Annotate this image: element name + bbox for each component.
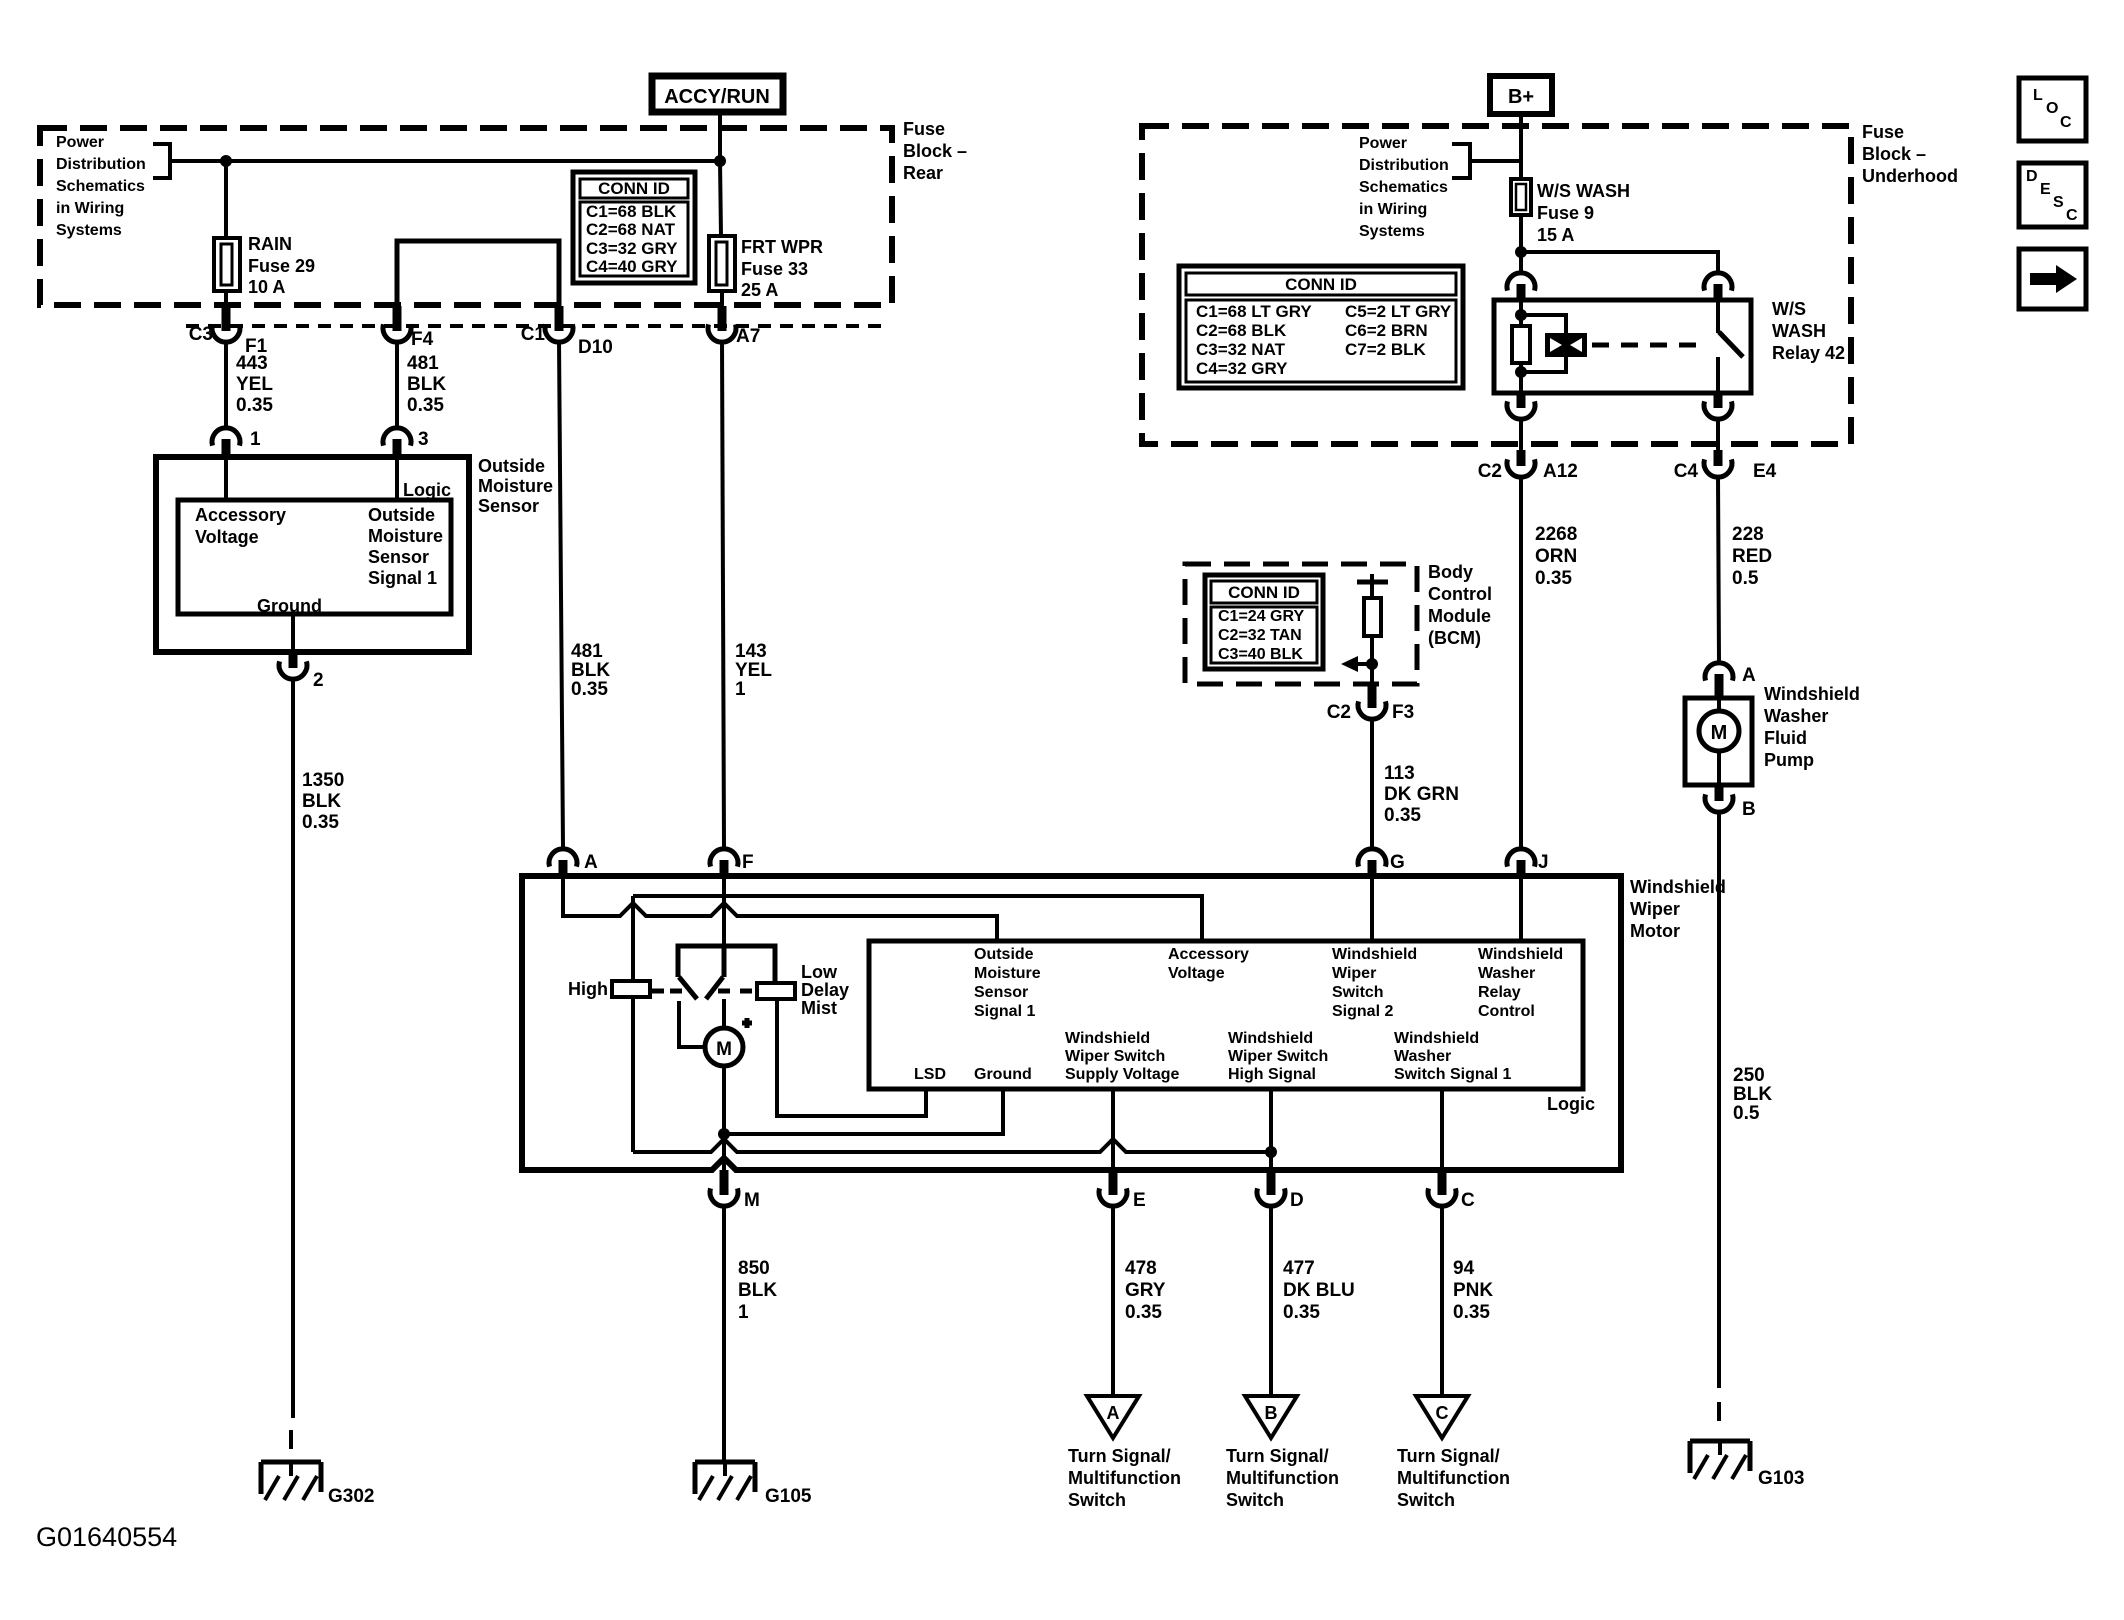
- svg-text:C1=68 BLK: C1=68 BLK: [586, 202, 677, 221]
- svg-text:YEL: YEL: [236, 374, 273, 395]
- svg-text:Block –: Block –: [1862, 144, 1926, 164]
- svg-text:DK BLU: DK BLU: [1283, 1280, 1355, 1301]
- svg-text:Systems: Systems: [56, 222, 122, 239]
- svg-text:C1: C1: [521, 324, 546, 345]
- svg-text:Windshield: Windshield: [1630, 877, 1726, 897]
- svg-text:Power: Power: [56, 134, 104, 151]
- svg-text:Moisture: Moisture: [478, 476, 553, 496]
- svg-text:228: 228: [1732, 524, 1764, 545]
- svg-text:B: B: [1742, 799, 1756, 820]
- svg-text:850: 850: [738, 1258, 770, 1279]
- svg-text:C3: C3: [189, 324, 213, 345]
- svg-text:Wiper Switch: Wiper Switch: [1065, 1048, 1165, 1065]
- svg-text:Fuse: Fuse: [903, 119, 945, 139]
- svg-text:3: 3: [418, 429, 429, 450]
- svg-text:Windshield: Windshield: [1764, 684, 1860, 704]
- svg-text:High Signal: High Signal: [1228, 1066, 1316, 1083]
- svg-text:DK GRN: DK GRN: [1384, 784, 1459, 805]
- svg-text:Signal 2: Signal 2: [1332, 1003, 1393, 1020]
- svg-text:Fuse: Fuse: [1862, 122, 1904, 142]
- svg-text:Low: Low: [801, 962, 838, 982]
- svg-text:C2: C2: [1478, 461, 1502, 482]
- svg-text:O: O: [2046, 100, 2058, 117]
- svg-text:C: C: [2060, 114, 2072, 131]
- svg-text:Body: Body: [1428, 562, 1473, 582]
- svg-text:0.5: 0.5: [1733, 1103, 1760, 1124]
- svg-text:Switch Signal 1: Switch Signal 1: [1394, 1066, 1511, 1083]
- svg-text:Voltage: Voltage: [1168, 965, 1225, 982]
- svg-text:Power: Power: [1359, 135, 1407, 152]
- svg-text:Voltage: Voltage: [195, 527, 259, 547]
- svg-text:WASH: WASH: [1772, 321, 1826, 341]
- svg-text:0.35: 0.35: [1125, 1302, 1162, 1323]
- svg-text:113: 113: [1384, 763, 1415, 784]
- svg-text:C1=24 GRY: C1=24 GRY: [1218, 608, 1304, 625]
- svg-text:Distribution: Distribution: [56, 156, 146, 173]
- svg-text:G: G: [1390, 852, 1405, 873]
- svg-text:G01640554: G01640554: [36, 1522, 177, 1552]
- svg-text:F4: F4: [411, 329, 434, 350]
- svg-text:M: M: [744, 1190, 760, 1211]
- svg-text:Switch: Switch: [1226, 1490, 1284, 1510]
- svg-text:W/S: W/S: [1772, 299, 1806, 319]
- svg-text:C3=40 BLK: C3=40 BLK: [1218, 646, 1303, 663]
- svg-text:Turn Signal/: Turn Signal/: [1068, 1446, 1171, 1466]
- svg-text:Windshield: Windshield: [1394, 1030, 1479, 1047]
- svg-text:Delay: Delay: [801, 980, 849, 1000]
- svg-text:in Wiring: in Wiring: [1359, 201, 1427, 218]
- svg-text:(BCM): (BCM): [1428, 628, 1481, 648]
- svg-text:Switch: Switch: [1068, 1490, 1126, 1510]
- svg-text:Underhood: Underhood: [1862, 166, 1958, 186]
- svg-text:Windshield: Windshield: [1478, 946, 1563, 963]
- svg-text:478: 478: [1125, 1258, 1157, 1279]
- svg-text:Washer: Washer: [1478, 965, 1535, 982]
- svg-text:Module: Module: [1428, 606, 1491, 626]
- svg-text:Washer: Washer: [1764, 706, 1828, 726]
- svg-text:A: A: [1107, 1403, 1120, 1423]
- svg-text:C5=2 LT GRY: C5=2 LT GRY: [1345, 302, 1452, 321]
- svg-text:Sensor: Sensor: [478, 496, 539, 516]
- svg-text:Windshield: Windshield: [1228, 1030, 1313, 1047]
- svg-text:Switch: Switch: [1332, 984, 1384, 1001]
- svg-text:High: High: [568, 979, 608, 999]
- svg-text:Windshield: Windshield: [1065, 1030, 1150, 1047]
- svg-text:G302: G302: [328, 1486, 374, 1507]
- svg-text:Schematics: Schematics: [1359, 179, 1448, 196]
- svg-text:Moisture: Moisture: [974, 965, 1041, 982]
- svg-text:250: 250: [1733, 1065, 1765, 1086]
- svg-text:Outside: Outside: [478, 456, 545, 476]
- svg-text:Relay 42: Relay 42: [1772, 343, 1845, 363]
- svg-text:G105: G105: [765, 1486, 812, 1507]
- svg-text:J: J: [1538, 852, 1549, 873]
- svg-text:RED: RED: [1732, 546, 1772, 567]
- svg-text:Control: Control: [1428, 584, 1492, 604]
- svg-text:B: B: [1265, 1403, 1278, 1423]
- svg-text:2268: 2268: [1535, 524, 1577, 545]
- svg-text:C4=32 GRY: C4=32 GRY: [1196, 359, 1288, 378]
- svg-text:FRT WPR: FRT WPR: [741, 237, 823, 257]
- svg-text:1: 1: [250, 429, 261, 450]
- svg-text:ORN: ORN: [1535, 546, 1577, 567]
- svg-text:L: L: [2033, 87, 2043, 104]
- svg-text:Systems: Systems: [1359, 223, 1425, 240]
- svg-text:C: C: [1461, 1190, 1475, 1211]
- svg-text:E: E: [1133, 1190, 1146, 1211]
- svg-text:Wiper Switch: Wiper Switch: [1228, 1048, 1328, 1065]
- svg-text:0.35: 0.35: [407, 395, 444, 416]
- svg-text:A: A: [1742, 665, 1756, 686]
- svg-text:Fuse 9: Fuse 9: [1537, 203, 1594, 223]
- svg-text:25 A: 25 A: [741, 280, 778, 300]
- svg-text:C7=2 BLK: C7=2 BLK: [1345, 340, 1426, 359]
- svg-text:BLK: BLK: [407, 374, 446, 395]
- svg-text:GRY: GRY: [1125, 1280, 1166, 1301]
- svg-text:Mist: Mist: [801, 998, 837, 1018]
- svg-text:0.35: 0.35: [1384, 805, 1421, 826]
- svg-text:Multifunction: Multifunction: [1068, 1468, 1181, 1488]
- svg-text:Washer: Washer: [1394, 1048, 1451, 1065]
- svg-text:1350: 1350: [302, 770, 344, 791]
- svg-text:C3=32 GRY: C3=32 GRY: [586, 239, 678, 258]
- svg-text:W/S WASH: W/S WASH: [1537, 181, 1630, 201]
- svg-text:Logic: Logic: [403, 480, 451, 500]
- svg-text:C4: C4: [1674, 461, 1699, 482]
- svg-text:15 A: 15 A: [1537, 225, 1574, 245]
- svg-text:in Wiring: in Wiring: [56, 200, 124, 217]
- svg-text:BLK: BLK: [1733, 1084, 1772, 1105]
- svg-text:Schematics: Schematics: [56, 178, 145, 195]
- svg-text:Control: Control: [1478, 1003, 1535, 1020]
- svg-text:Turn Signal/: Turn Signal/: [1226, 1446, 1329, 1466]
- svg-text:Switch: Switch: [1397, 1490, 1455, 1510]
- svg-text:Fuse 29: Fuse 29: [248, 256, 315, 276]
- svg-text:CONN ID: CONN ID: [598, 179, 670, 198]
- svg-text:Block –: Block –: [903, 141, 967, 161]
- svg-text:0.35: 0.35: [1283, 1302, 1320, 1323]
- svg-text:10 A: 10 A: [248, 277, 285, 297]
- svg-text:0.35: 0.35: [1453, 1302, 1490, 1323]
- svg-text:M: M: [1711, 722, 1728, 744]
- svg-text:Accessory: Accessory: [1168, 946, 1249, 963]
- svg-text:0.35: 0.35: [236, 395, 273, 416]
- svg-text:Distribution: Distribution: [1359, 157, 1449, 174]
- svg-text:CONN ID: CONN ID: [1228, 583, 1300, 602]
- svg-text:94: 94: [1453, 1258, 1475, 1279]
- svg-text:0.35: 0.35: [571, 679, 608, 700]
- svg-text:1: 1: [738, 1302, 749, 1323]
- svg-text:C: C: [1436, 1403, 1449, 1423]
- svg-text:C: C: [2066, 207, 2078, 224]
- svg-text:477: 477: [1283, 1258, 1315, 1279]
- svg-text:443: 443: [236, 353, 268, 374]
- svg-text:Turn Signal/: Turn Signal/: [1397, 1446, 1500, 1466]
- svg-text:C4=40 GRY: C4=40 GRY: [586, 257, 678, 276]
- svg-text:C3=32 NAT: C3=32 NAT: [1196, 340, 1286, 359]
- svg-text:143: 143: [735, 641, 767, 662]
- svg-text:Accessory: Accessory: [195, 505, 286, 525]
- svg-text:S: S: [2053, 194, 2064, 211]
- svg-text:F3: F3: [1392, 702, 1414, 723]
- svg-text:Wiper: Wiper: [1630, 899, 1680, 919]
- svg-text:C2=68 NAT: C2=68 NAT: [586, 220, 676, 239]
- svg-text:RAIN: RAIN: [248, 234, 292, 254]
- svg-text:Supply Voltage: Supply Voltage: [1065, 1066, 1179, 1083]
- svg-text:Fluid: Fluid: [1764, 728, 1807, 748]
- svg-text:Moisture: Moisture: [368, 526, 443, 546]
- svg-text:Ground: Ground: [257, 596, 322, 616]
- svg-text:ACCY/RUN: ACCY/RUN: [664, 86, 770, 108]
- svg-text:C2: C2: [1327, 702, 1351, 723]
- svg-text:Logic: Logic: [1547, 1094, 1595, 1114]
- svg-text:C2=32 TAN: C2=32 TAN: [1218, 627, 1302, 644]
- svg-text:B+: B+: [1508, 86, 1534, 108]
- svg-text:Wiper: Wiper: [1332, 965, 1376, 982]
- svg-text:Multifunction: Multifunction: [1226, 1468, 1339, 1488]
- svg-text:BLK: BLK: [738, 1280, 777, 1301]
- svg-text:F: F: [742, 852, 754, 873]
- svg-text:C2=68 BLK: C2=68 BLK: [1196, 321, 1287, 340]
- svg-text:E4: E4: [1753, 461, 1777, 482]
- svg-text:Ground: Ground: [974, 1066, 1032, 1083]
- svg-text:M: M: [716, 1039, 732, 1060]
- svg-text:Sensor: Sensor: [368, 547, 429, 567]
- svg-text:Outside: Outside: [974, 946, 1034, 963]
- svg-text:CONN ID: CONN ID: [1285, 275, 1357, 294]
- svg-text:Motor: Motor: [1630, 921, 1680, 941]
- svg-text:Sensor: Sensor: [974, 984, 1028, 1001]
- svg-text:0.35: 0.35: [302, 812, 339, 833]
- svg-text:C6=2 BRN: C6=2 BRN: [1345, 321, 1428, 340]
- svg-text:YEL: YEL: [735, 660, 772, 681]
- svg-text:D: D: [2026, 168, 2038, 185]
- svg-text:A7: A7: [736, 326, 760, 347]
- svg-text:Fuse 33: Fuse 33: [741, 259, 808, 279]
- svg-text:D10: D10: [578, 337, 613, 358]
- svg-text:1: 1: [735, 679, 746, 700]
- svg-text:0.35: 0.35: [1535, 568, 1572, 589]
- svg-text:481: 481: [571, 641, 603, 662]
- svg-text:LSD: LSD: [914, 1066, 946, 1083]
- svg-text:Relay: Relay: [1478, 984, 1521, 1001]
- svg-text:PNK: PNK: [1453, 1280, 1493, 1301]
- svg-text:0.5: 0.5: [1732, 568, 1759, 589]
- svg-text:2: 2: [313, 670, 324, 691]
- svg-text:Outside: Outside: [368, 505, 435, 525]
- svg-text:Signal 1: Signal 1: [368, 568, 437, 588]
- svg-text:481: 481: [407, 353, 439, 374]
- svg-text:BLK: BLK: [302, 791, 341, 812]
- svg-text:Multifunction: Multifunction: [1397, 1468, 1510, 1488]
- svg-text:BLK: BLK: [571, 660, 610, 681]
- svg-text:Rear: Rear: [903, 163, 943, 183]
- svg-text:E: E: [2040, 181, 2051, 198]
- svg-text:Windshield: Windshield: [1332, 946, 1417, 963]
- svg-text:A12: A12: [1543, 461, 1578, 482]
- svg-text:D: D: [1290, 1190, 1304, 1211]
- svg-text:G103: G103: [1758, 1468, 1804, 1489]
- svg-text:Pump: Pump: [1764, 750, 1814, 770]
- svg-text:Signal 1: Signal 1: [974, 1003, 1035, 1020]
- svg-text:A: A: [584, 852, 598, 873]
- svg-text:C1=68 LT GRY: C1=68 LT GRY: [1196, 302, 1312, 321]
